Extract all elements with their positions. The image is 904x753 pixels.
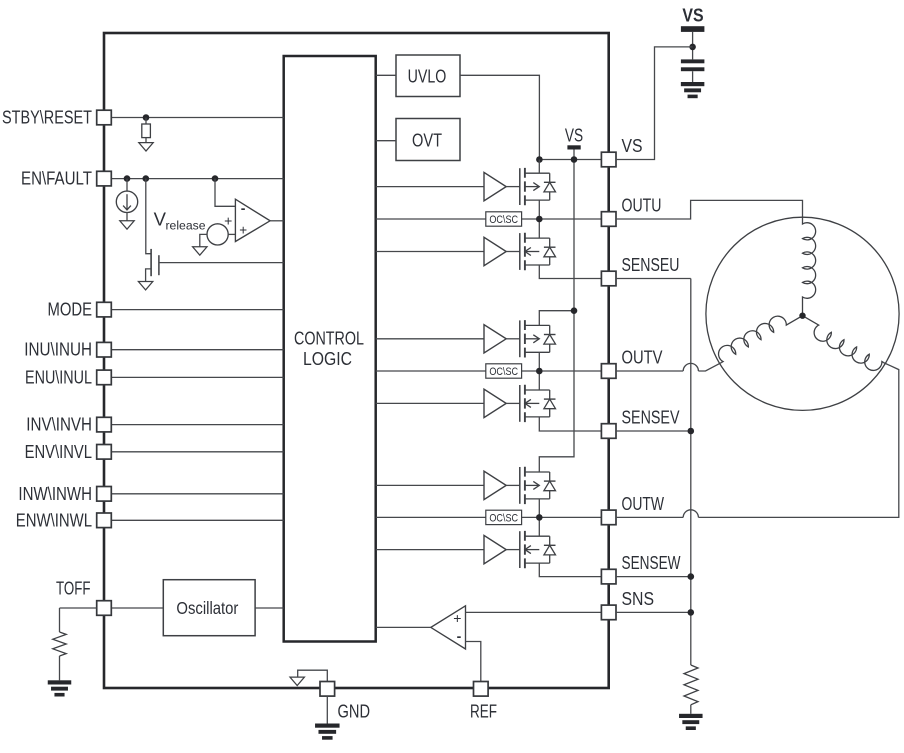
- pin ENU\INUL: [97, 370, 112, 385]
- wire capacitor to earth ground: [692, 71, 694, 82]
- pin VS: [601, 152, 616, 167]
- svg-text:+: +: [453, 610, 461, 626]
- wire VS node to VS pin: [539, 159, 601, 161]
- wire SNS pin to sense rail: [616, 611, 691, 613]
- svg-text:Oscillator: Oscillator: [176, 598, 238, 618]
- wire control logic to OC\SC row y371: [376, 370, 486, 372]
- svg-text:OVT: OVT: [412, 130, 442, 150]
- pin ENV\INVL: [97, 445, 112, 460]
- wire ENU\INUL pin to control logic: [111, 376, 283, 378]
- pin SENSEW: [601, 569, 616, 584]
- resistor R-SENSE: [684, 665, 698, 705]
- svg-text:+: +: [224, 212, 232, 228]
- svg-text:GND: GND: [338, 702, 371, 722]
- svg-text:TOFF: TOFF: [56, 579, 91, 599]
- wire OC\SC to output pin row y219: [522, 218, 602, 220]
- VS supply bar: [681, 26, 705, 32]
- wire V high drain to rail: [539, 311, 574, 326]
- wire VS bar to capacitor: [692, 32, 694, 60]
- svg-text:VS: VS: [682, 5, 703, 25]
- transistor U high-side DMOS with body diode: [519, 168, 521, 205]
- node SENSEV junction: [688, 428, 695, 435]
- wire OUTU pin to motor winding U: [616, 200, 803, 222]
- voltage source Vrelease: [207, 224, 228, 245]
- signal ground (Vrelease): [193, 247, 207, 255]
- svg-text:OUTW: OUTW: [622, 494, 665, 514]
- node VS junction 1: [536, 156, 543, 163]
- OC\SC block U phase: [486, 212, 522, 226]
- VS supply bar (internal): [567, 145, 580, 149]
- wire resistor to earth ground: [59, 656, 61, 680]
- wire current source to ground: [126, 213, 128, 221]
- svg-text:MODE: MODE: [48, 300, 93, 320]
- svg-text:REF: REF: [470, 702, 497, 722]
- svg-text:ENV\INVL: ENV\INVL: [25, 442, 92, 462]
- wire junction C to comparator inverting input: [215, 179, 235, 207]
- wire Q1 gate to control logic: [159, 262, 284, 264]
- wire junction B to transistor drain: [146, 179, 151, 254]
- earth ground (TOFF resistor): [48, 680, 72, 684]
- motor M1 (three-phase): [706, 217, 899, 410]
- comparator U2: [235, 199, 270, 241]
- current source I1: [116, 191, 137, 212]
- node STBY junction: [143, 114, 150, 121]
- wire TOFF pin to external resistor: [60, 608, 97, 632]
- node SNS junction: [688, 609, 695, 616]
- svg-text:+: +: [239, 222, 247, 237]
- earth ground (sense resistor): [679, 714, 703, 718]
- wire U low source to SENSEU: [539, 265, 601, 279]
- svg-text:ENU\INUL: ENU\INUL: [25, 367, 92, 387]
- svg-text:SENSEU: SENSEU: [622, 255, 680, 275]
- pin OUTU: [601, 212, 616, 227]
- signal ground (current source): [120, 221, 134, 229]
- node EN\FAULT junction A: [124, 175, 131, 182]
- wire sense rail (SENSEU to resistor): [690, 279, 692, 666]
- svg-text:INU\INUH: INU\INUH: [24, 340, 92, 360]
- svg-text:ENW\INWL: ENW\INWL: [16, 510, 92, 530]
- svg-text:LOGIC: LOGIC: [303, 349, 352, 369]
- wire comparator output to control logic: [376, 626, 431, 628]
- pin GND: [320, 682, 335, 697]
- earth ground (GND pin): [315, 724, 340, 728]
- wire GND pin to earth ground: [326, 696, 328, 723]
- wire OUTW pin to motor winding W (hop over rail): [616, 516, 683, 518]
- wire V phase node: [538, 352, 540, 390]
- wire junction A to current source: [126, 179, 128, 192]
- pin SNS: [601, 605, 616, 620]
- transistor V low-side DMOS with body diode: [519, 385, 521, 422]
- pin INU\INUH: [97, 342, 112, 357]
- svg-text:SENSEV: SENSEV: [622, 407, 680, 427]
- OC\SC block V phase: [486, 364, 522, 378]
- pin OUTV: [601, 364, 616, 379]
- svg-text:VS: VS: [565, 126, 583, 146]
- inductor winding V: [715, 304, 803, 362]
- node SENSEW junction: [688, 573, 695, 580]
- svg-text:-: -: [457, 628, 462, 644]
- wire control logic to OVT: [376, 140, 396, 142]
- wire V low source to SENSEV: [539, 417, 601, 431]
- node V phase junction: [536, 368, 543, 375]
- node EN\FAULT junction B: [143, 175, 150, 182]
- pin MODE: [97, 302, 112, 317]
- svg-text:OC\SC: OC\SC: [489, 214, 518, 226]
- wire TOFF pin to oscillator: [111, 607, 163, 609]
- node U phase junction: [536, 216, 543, 223]
- svg-text:SNS: SNS: [622, 589, 655, 609]
- signal ground arrow at GND pin: [298, 670, 328, 681]
- control logic block U1: [284, 56, 376, 642]
- svg-text:UVLO: UVLO: [408, 66, 447, 86]
- pin OUTW: [601, 510, 616, 525]
- transistor V high-side DMOS with body diode: [519, 320, 521, 357]
- wire control logic to gate driver row y403: [376, 402, 484, 404]
- wire Vrelease to comparator non-inverting input: [228, 233, 235, 235]
- svg-text:OUTV: OUTV: [622, 347, 663, 367]
- oscillator block: [163, 580, 255, 636]
- earth ground (VS capacitor): [681, 82, 705, 86]
- resistor R-STBY (box symbol): [142, 124, 151, 138]
- svg-text:OUTU: OUTU: [622, 195, 662, 215]
- svg-text:SENSEW: SENSEW: [622, 553, 681, 573]
- wire ENV\INVL pin to control logic: [111, 451, 283, 453]
- wire resistor to ground: [145, 138, 147, 143]
- transistor U low-side DMOS with body diode: [519, 233, 521, 270]
- gate driver U low-side: [484, 237, 506, 265]
- wire INU\INUH pin to control logic: [111, 349, 283, 351]
- wire oscillator to control logic: [255, 607, 284, 609]
- wire OC\SC to output pin row y517: [522, 516, 602, 518]
- wire W low source to SENSEW: [539, 563, 601, 577]
- wire ENW\INWL pin to control logic: [111, 519, 283, 521]
- wire OUTV pin to motor winding V (hop over rail): [616, 370, 683, 372]
- wire control logic to OC\SC row y219: [376, 218, 486, 220]
- OVT block: [396, 119, 460, 161]
- svg-text:-: -: [241, 200, 246, 216]
- pin TOFF: [97, 601, 112, 616]
- pin INW\INWH: [97, 487, 112, 502]
- wire VS junction to VS pin: [616, 47, 693, 160]
- pin SENSEU: [601, 271, 616, 286]
- svg-text:OC\SC: OC\SC: [489, 366, 518, 378]
- wire comparator + input to SNS pin: [466, 611, 602, 613]
- signal ground (Q1 source): [138, 282, 152, 290]
- wire OC\SC to output pin row y371: [522, 370, 602, 372]
- UVLO block: [396, 55, 460, 97]
- OC\SC block W phase: [486, 510, 522, 524]
- svg-text:release: release: [166, 219, 206, 233]
- node EN\FAULT junction C: [212, 175, 219, 182]
- signal ground (STBY pull-down): [139, 143, 153, 151]
- node W phase junction: [536, 514, 543, 521]
- svg-text:STBY\RESET: STBY\RESET: [2, 108, 92, 128]
- gate driver V low-side: [484, 389, 506, 417]
- IC outer boundary box: [104, 33, 609, 688]
- svg-text:VS: VS: [622, 136, 643, 156]
- wire SENSEV pin to sense rail: [616, 430, 691, 432]
- wire INV\INVH pin to control logic: [111, 424, 283, 426]
- wire SENSEW pin to sense rail: [616, 576, 691, 578]
- resistor R-TOFF: [53, 632, 66, 656]
- wire STBY\RESET pin to control logic: [111, 117, 283, 119]
- transistor W low-side DMOS with body diode: [519, 531, 521, 568]
- wire SENSEU pin to sense rail: [616, 278, 691, 280]
- wire control logic to gate driver row y338: [376, 338, 484, 340]
- wire control logic to gate driver row y549: [376, 549, 484, 551]
- pin REF: [474, 682, 489, 697]
- pin STBY\RESET: [97, 110, 112, 125]
- svg-text:INV\INVH: INV\INVH: [26, 415, 92, 435]
- gate driver V high-side: [484, 325, 506, 353]
- wire MODE pin to control logic: [111, 309, 283, 311]
- inductor winding W: [796, 316, 884, 374]
- gate driver U high-side: [484, 172, 506, 200]
- wire control logic to UVLO: [376, 74, 396, 76]
- pin SENSEV: [601, 424, 616, 439]
- wire sense resistor to earth ground: [690, 705, 692, 714]
- node VS external junction: [689, 44, 696, 51]
- node motor star point: [799, 313, 805, 319]
- wire internal VS rail: [539, 150, 574, 473]
- wire UVLO to VS node: [460, 75, 539, 159]
- svg-text:OC\SC: OC\SC: [489, 512, 518, 524]
- wire control logic to gate driver row y485: [376, 484, 484, 486]
- svg-text:EN\FAULT: EN\FAULT: [21, 169, 92, 189]
- inductor winding U: [803, 222, 816, 316]
- node V drain junction: [571, 307, 578, 314]
- wire control logic to gate driver row y251: [376, 251, 484, 253]
- pin INV\INVH: [97, 417, 112, 432]
- gate driver W low-side: [484, 535, 506, 563]
- node VS junction 2: [571, 156, 578, 163]
- pin ENW\INWL: [97, 513, 112, 528]
- wire U phase node: [538, 200, 540, 238]
- svg-text:INW\INWH: INW\INWH: [18, 484, 92, 504]
- wire INW\INWH pin to control logic: [111, 493, 283, 495]
- comparator U3 (current sense): [431, 606, 466, 649]
- wire W phase node: [538, 499, 540, 536]
- capacitor C1: [681, 59, 705, 63]
- wire U high drain: [538, 160, 540, 174]
- transistor W high-side DMOS with body diode: [519, 467, 521, 504]
- wire STBY junction to resistor: [145, 118, 147, 125]
- wire EN\FAULT pin to control logic: [111, 178, 283, 180]
- transistor Q1 (open drain): [150, 249, 152, 276]
- wire comparator - input to REF pin: [466, 642, 481, 682]
- gate driver W high-side: [484, 471, 506, 499]
- pin EN\FAULT: [97, 171, 112, 186]
- wire control logic to OC\SC row y517: [376, 516, 486, 518]
- wire comparator output to control logic: [270, 220, 284, 222]
- svg-text:CONTROL: CONTROL: [294, 328, 364, 348]
- wire control logic to gate driver row y186: [376, 186, 484, 188]
- wire Vrelease to ground: [200, 234, 207, 246]
